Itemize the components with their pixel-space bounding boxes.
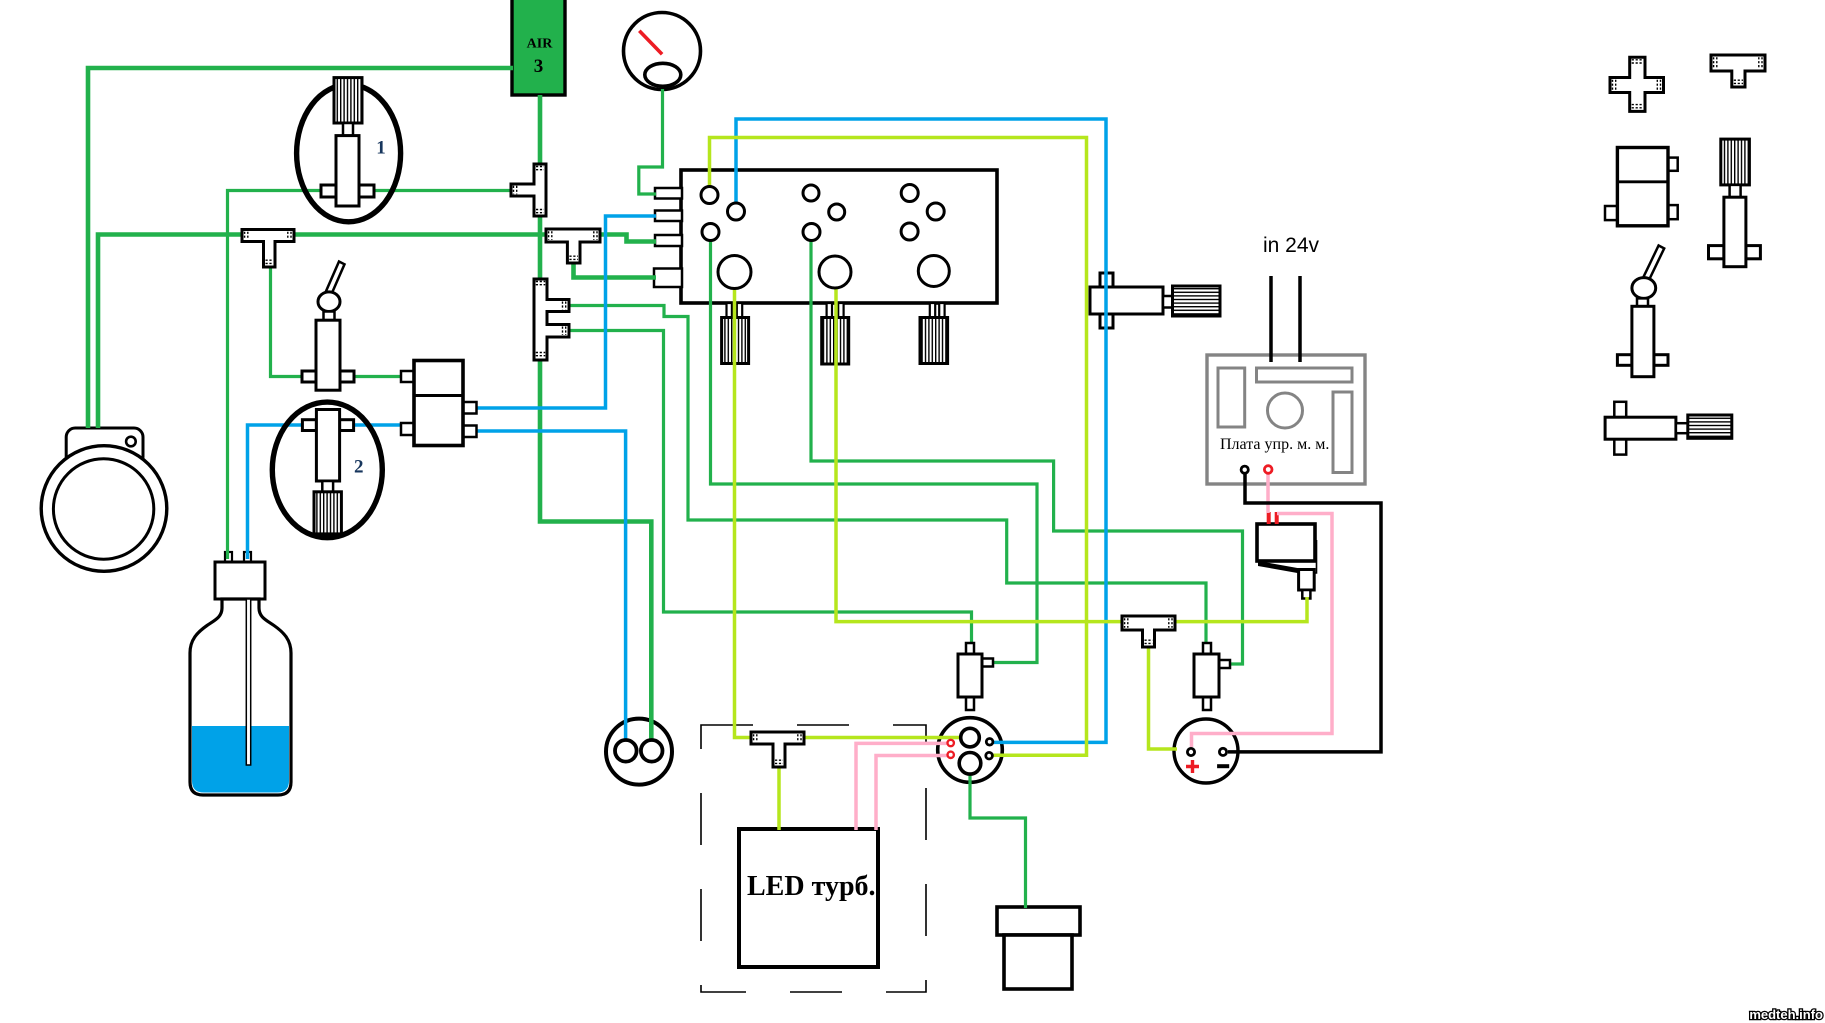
svg-text:3: 3 bbox=[534, 56, 544, 77]
manifold port 3 bbox=[655, 235, 682, 246]
pump air valve V4 bbox=[958, 643, 993, 710]
tee TA bbox=[242, 230, 294, 268]
valve V3 (lever) bbox=[302, 262, 354, 391]
manifold port 4 bbox=[654, 269, 682, 288]
wire: pump to spittoon bbox=[970, 772, 1026, 908]
wire: bottle air line through valve 1 bbox=[228, 191, 512, 560]
spare regulator bbox=[1605, 402, 1732, 455]
muffler M3 stems bbox=[930, 303, 935, 318]
wire: manifold g2 hole3 to motor valve circuit bbox=[811, 239, 1243, 664]
wire: board black terminal to motor minus bbox=[1228, 473, 1381, 752]
svg-text:1: 1 bbox=[376, 138, 386, 159]
wire: manifold g1 hole1 to pump (lime) bbox=[710, 138, 1087, 756]
water bottle cap bbox=[215, 552, 265, 599]
muffler M2 stems bbox=[827, 303, 832, 318]
pressure gauge bbox=[624, 13, 701, 90]
wire: LED box to pump red dot 1 bbox=[856, 743, 947, 830]
wire: holder to manifold port3 via T connectors bbox=[98, 235, 656, 429]
micromotor terminals bbox=[1186, 748, 1229, 773]
svg-text:LED турб.: LED турб. bbox=[747, 871, 876, 902]
muffler M1 stems bbox=[727, 303, 732, 318]
turbine handpiece holder bbox=[41, 428, 167, 571]
wire: AIR3 to holder (top run) bbox=[88, 68, 513, 428]
wire: manifold g1 hole2 via regulator to pump bbox=[736, 119, 1106, 742]
wire: bottle water line through valve 2 bbox=[248, 425, 403, 559]
wire: E-connector arm2 to pump valve top bbox=[568, 331, 972, 646]
control board U1 (Плата упр. м. м.) bbox=[1207, 355, 1365, 484]
muffler M2 bbox=[822, 318, 849, 365]
spare lever valve bbox=[1617, 246, 1668, 377]
svg-text:2: 2 bbox=[354, 457, 364, 478]
wire: board red terminal to solenoid bbox=[1266, 473, 1270, 513]
24v input leads bbox=[1269, 276, 1273, 362]
micromotor M (outer) bbox=[1174, 719, 1238, 783]
tee T5 (LED zone) bbox=[751, 732, 804, 767]
wire: manifold g1 bore to LED tee and pump bbox=[735, 284, 964, 738]
spare tee connector bbox=[1711, 55, 1765, 87]
spare valve with muffler bbox=[1709, 139, 1761, 267]
valve V1 (spray air) bbox=[321, 78, 374, 206]
wire: LED box to pump red dot 2 bbox=[876, 756, 947, 831]
wire: TA stem to lever valve bbox=[271, 262, 305, 377]
spare pilot block bbox=[1605, 148, 1678, 226]
board terminals bbox=[1241, 466, 1272, 474]
svg-text:medteh.info: medteh.info bbox=[1749, 1007, 1823, 1022]
wire: LED tee stem to LED box bbox=[777, 764, 781, 830]
svg-text:Плата упр. м. м.: Плата упр. м. м. bbox=[1220, 436, 1329, 453]
LED turbine light box bbox=[739, 829, 878, 967]
ellipse ring 2 bbox=[272, 402, 382, 538]
wire: manifold g2 bore to water solenoid outlet bbox=[836, 284, 1307, 622]
spittoon bowl bbox=[997, 907, 1080, 989]
manifold port 1 bbox=[655, 188, 682, 199]
spare cross connector bbox=[1610, 57, 1664, 111]
turbine hose connector (outer) bbox=[606, 719, 672, 785]
splitter E1 bbox=[534, 279, 569, 360]
motor air valve V5 bbox=[1194, 643, 1230, 710]
dashed turbine zone bbox=[701, 725, 926, 992]
wire: AIR3 down to turbine connector bbox=[540, 95, 651, 744]
tee T3 bbox=[546, 229, 600, 263]
wire: T3 stem to manifold port4 bbox=[574, 260, 657, 278]
wire: T4 stem to motor plus bbox=[1149, 644, 1178, 749]
manifold port 2 bbox=[655, 211, 682, 222]
turbine connector ports bbox=[615, 740, 663, 762]
svg-text:in 24v: in 24v bbox=[1263, 234, 1320, 257]
wire: manifold g1 hole3 to pump valve side port bbox=[711, 239, 1038, 663]
water solenoid valve SV1 bbox=[1257, 512, 1317, 599]
wire: gauge to manifold port1 bbox=[639, 89, 663, 194]
manifold bores bbox=[701, 185, 949, 289]
AIR 3 supply box bbox=[512, 0, 565, 95]
muffler M1 bbox=[722, 318, 749, 364]
wire: pilot block to manifold port2 bbox=[476, 216, 656, 408]
muffler M3 bbox=[920, 318, 948, 364]
air regulator R (inline) bbox=[1090, 273, 1220, 328]
wire: pilot block to turbine connector bbox=[476, 431, 626, 744]
pump head rollers bbox=[948, 728, 993, 774]
tee T4 bbox=[1122, 616, 1175, 647]
wire: E-connector arm1 to motor air valve top bbox=[568, 306, 1206, 646]
peristaltic pump head (outer) bbox=[938, 718, 1003, 783]
wire: solenoid to motor plus bbox=[1192, 514, 1333, 748]
manifold block bbox=[681, 170, 997, 303]
pilot valve block B1 bbox=[401, 361, 477, 446]
tee T2 (left) bbox=[511, 164, 546, 216]
svg-text:AIR: AIR bbox=[527, 37, 554, 52]
wire: lever valve to pilot block bbox=[353, 375, 402, 378]
water bottle bbox=[190, 599, 291, 795]
valve V2 (spray water) bbox=[302, 410, 353, 534]
ellipse ring 1 bbox=[297, 85, 401, 222]
